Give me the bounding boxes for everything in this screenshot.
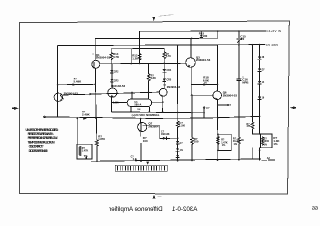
box2 right resistor box [261, 134, 273, 148]
svg-text:NPB: NPB [242, 81, 248, 85]
mid rail segment y48.6 [111, 48, 164, 50]
border frame [19, 21, 289, 194]
diode chain x259.6 [259, 45, 261, 57]
svg-text:C5 4W5: C5 4W5 [266, 43, 278, 47]
registration arrow bottom [153, 195, 156, 199]
svg-text:2N3904-53: 2N3904-53 [96, 55, 111, 59]
svg-text:16: 16 [262, 97, 265, 99]
svg-text:100: 100 [202, 34, 207, 38]
rail W3 y118 [45, 116, 259, 118]
svg-text:1%: 1% [234, 143, 238, 146]
svg-text:1N4148-53: 1N4148-53 [111, 84, 126, 88]
transistor Q2 [159, 88, 167, 96]
pot wiper lead [85, 157, 87, 159]
svg-text:4.7K: 4.7K [166, 55, 171, 58]
svg-text:2N3904: 2N3904 [148, 124, 159, 128]
svg-text:1K: 1K [241, 139, 244, 142]
svg-text:1N4148: 1N4148 [161, 133, 170, 136]
svg-text:14: 14 [262, 81, 265, 84]
oval IC U1 right lead [152, 101, 163, 103]
svg-text:DIODES ARE 1N645: DIODES ARE 1N645 [29, 149, 48, 153]
svg-text:2N3904-53: 2N3904-53 [64, 91, 79, 95]
svg-text:C?: C? [180, 143, 184, 145]
svg-text:CR2: CR2 [114, 71, 119, 73]
svg-text:CR4: CR4 [167, 69, 172, 72]
CR3 diode [111, 73, 113, 79]
oval IC U1 [127, 99, 151, 107]
svg-text:2N3904-53: 2N3904-53 [167, 85, 181, 89]
stacked diode 1 [176, 141, 179, 144]
faint smudge above top frame [159, 15, 173, 17]
diode CR5 [163, 79, 166, 82]
open terminal left [44, 116, 46, 118]
notes block [26, 128, 59, 153]
comb ticks [118, 166, 165, 170]
faint dash near bottom arrow [158, 195, 162, 197]
transistor Q4 [108, 88, 117, 97]
transistor Q1 emitter [94, 68, 97, 118]
transistor Q7 [138, 122, 147, 131]
svg-text:D7: D7 [262, 69, 266, 71]
svg-text:4.7K: 4.7K [113, 55, 120, 59]
small cap above comb [135, 159, 137, 162]
svg-text:100: 100 [194, 140, 199, 144]
chain vertical x177.6 [177, 45, 179, 121]
wire y84.6 left [58, 83, 96, 86]
svg-text:1.2K: 1.2K [132, 56, 139, 60]
svg-text:C?: C? [206, 107, 210, 110]
svg-text:1%: 1% [180, 150, 183, 152]
arrow on lower rail [83, 117, 87, 119]
svg-text:2N3904-53: 2N3904-53 [223, 93, 238, 97]
svg-text:7%: 7% [204, 83, 207, 85]
svg-text:(+)24 VDC NOMINAL: (+)24 VDC NOMINAL [132, 113, 160, 117]
svg-text:CR3: CR3 [114, 80, 119, 82]
resistor x252.4 low [251, 117, 253, 122]
svg-text:1M: 1M [137, 109, 140, 111]
stacked diode 2 [176, 149, 179, 152]
svg-text:6.8K: 6.8K [151, 77, 156, 80]
resistor at x238.9 low [238, 137, 241, 144]
svg-text:66: 66 [312, 206, 318, 212]
box1 left resistor box [218, 134, 231, 150]
bus +6V top rail [140, 31, 266, 64]
svg-text:CR5: CR5 [167, 80, 172, 82]
Q6 emitter stub C7 [218, 104, 227, 106]
bus2 rail [95, 31, 218, 60]
wire arrow on Q5-Q2 line [90, 93, 94, 95]
resistor R14 pi loop [130, 49, 132, 64]
svg-text:A302-0-1: A302-0-1 [171, 206, 197, 213]
junction dots [217, 30, 219, 32]
resistor x148.6 mid [148, 64, 150, 74]
svg-text:Difference Amplifier: Difference Amplifier [109, 206, 163, 213]
svg-text:1%: 1% [264, 144, 268, 147]
svg-text:58A-A: 58A-A [135, 103, 142, 106]
diode at x204 [203, 107, 206, 110]
transistor Q3 [186, 58, 196, 68]
svg-text:1%: 1% [222, 144, 226, 147]
svg-text:1.8K: 1.8K [113, 101, 119, 105]
caption mirrored [109, 206, 318, 213]
comb connector [115, 165, 167, 171]
svg-text:22: 22 [241, 37, 245, 41]
arrow on Q3-Q6 wire [203, 83, 207, 86]
CR2 diode [111, 64, 113, 70]
svg-text:1.5K: 1.5K [179, 124, 186, 128]
left long vertical [57, 46, 59, 117]
bottom right tail [262, 159, 267, 161]
svg-text:a: a [93, 53, 95, 55]
registration arrow left [12, 107, 19, 110]
registration arrow right [290, 106, 296, 109]
svg-text:1.87K: 1.87K [98, 137, 105, 141]
comb arrow [146, 162, 149, 165]
resistor R13 [138, 54, 141, 60]
svg-text:100: 100 [143, 139, 148, 143]
stacked diode 3 [176, 155, 179, 158]
Q3 emitter resistor wire to Q6 [191, 83, 217, 85]
Q3 lower resistor [191, 95, 193, 137]
resistor x95.9 [95, 118, 97, 139]
gray vertical x238.9 [238, 45, 240, 79]
transistor Q1 [92, 60, 100, 68]
svg-text:C?: C? [131, 156, 135, 158]
svg-text:7%: 7% [84, 154, 89, 158]
svg-text:1.47K: 1.47K [82, 150, 89, 153]
bottom bus [92, 159, 261, 161]
plain vertical x252.4 [251, 45, 253, 117]
diode CR horizontal [166, 137, 168, 140]
wire arrow left mid [73, 83, 77, 85]
cap C15 [238, 31, 240, 38]
svg-text:2N3904-53: 2N3904-53 [196, 58, 211, 62]
transistor Q6 [213, 91, 222, 100]
svg-text:28: 28 [262, 57, 265, 59]
svg-text:C4+6V IN: C4+6V IN [266, 29, 281, 33]
bus3 rail [58, 45, 265, 46]
pot box left [77, 144, 92, 159]
wire y95 to Q6 [191, 94, 213, 96]
Q7 emitter resistor to bus [140, 144, 142, 162]
emitter arrows [93, 66, 95, 68]
zener x203.6 top [200, 31, 202, 35]
cap R 1.5K on x177.6 [176, 121, 179, 127]
svg-text:1%: 1% [273, 142, 278, 146]
W1-W3 link x204 [203, 107, 205, 119]
transistor Q5 [54, 93, 62, 101]
cap C16 [237, 78, 241, 80]
collector bus y63.6 [100, 62, 186, 65]
horizontal diode triangle [163, 137, 167, 140]
registration arrow top [152, 17, 155, 21]
resistor on x164.2 upper [163, 49, 165, 52]
svg-text:C7: C7 [228, 105, 232, 107]
diode CR4 [163, 69, 166, 72]
rail W1 y111.5 [112, 111, 205, 114]
wire Q5 to Q2 base [63, 92, 160, 95]
